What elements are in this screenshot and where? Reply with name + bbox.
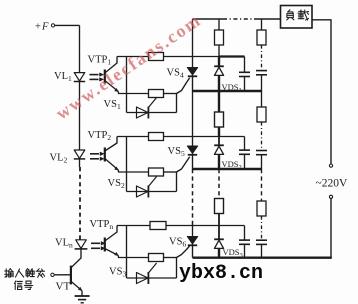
- thyristor VS4: [187, 68, 197, 77]
- wire line B group1 to group2: [192, 91, 194, 146]
- LED VL2: [74, 150, 85, 159]
- wire C3b to group3 bottom bus: [261, 244, 263, 257]
- wire left rail VL1 to VL2: [79, 82, 81, 151]
- wire gate node down to VS1 cathode row: [176, 94, 178, 113]
- group 1 bottom bus: [193, 90, 262, 92]
- node AC terminal lower: [329, 195, 332, 198]
- wire VS2 node to VS5 gate: [177, 157, 190, 172]
- wire line C group3 bus to VDS3: [218, 226, 220, 240]
- node +F supply terminal: [35, 21, 55, 32]
- LED VL1: [74, 73, 85, 82]
- group 1 top bus (left part): [117, 56, 219, 58]
- resistor RC3: [215, 199, 224, 214]
- wire line C dashed group2 to RC3: [218, 169, 220, 199]
- svg-text:VTP2: VTP2: [88, 130, 112, 142]
- resistor RC2: [215, 112, 224, 127]
- wire right rail lower: [330, 198, 332, 257]
- node input trigger terminal: [51, 273, 54, 276]
- svg-text:VT: VT: [56, 281, 71, 293]
- wire VS3 anode row: [127, 277, 177, 279]
- capacitor C2a: [239, 150, 250, 154]
- label input trigger signal 输入触发信号: [5, 269, 45, 290]
- diode VDS3: [214, 239, 224, 248]
- resistor R2b: [149, 168, 164, 176]
- svg-text:VS5: VS5: [168, 146, 185, 158]
- capacitor C1a: [239, 72, 250, 76]
- wire line C group1 to RC2: [218, 91, 220, 112]
- wire C3a top lead: [244, 226, 246, 240]
- LED VLn: [75, 240, 88, 249]
- wire C2a bottom lead: [244, 154, 246, 169]
- node AC terminal upper: [329, 164, 332, 167]
- thyristor VS6: [187, 237, 197, 246]
- wire link collector bus to VS2 anode: [126, 137, 128, 192]
- wire link collector bus to VS3 anode: [126, 226, 128, 279]
- thyristor VS1: [137, 98, 157, 119]
- wire VS3 node to VS6 gate: [177, 246, 190, 258]
- thyristor VS3: [137, 263, 157, 284]
- svg-text:F: F: [41, 21, 49, 32]
- resistor R1a: [149, 53, 164, 61]
- main top bus: [193, 18, 281, 20]
- group 3 bottom bus to right rail: [193, 257, 332, 259]
- wire C3a bottom lead: [244, 244, 246, 257]
- optocoupler light arrows channel 1: [90, 73, 104, 81]
- wire C1a bottom lead: [244, 77, 246, 92]
- wire VDS1 to group1 bottom bus: [218, 75, 220, 91]
- wire gate node down to VS2 cathode row: [176, 172, 178, 192]
- watermark ybx8.cn: [179, 262, 263, 285]
- wire line B from top bus to VS4: [192, 19, 194, 68]
- capacitor C3a: [239, 240, 250, 244]
- wire left rail below VL2 (solid stub): [79, 159, 81, 167]
- phototransistor VTP1: [105, 57, 119, 92]
- phototransistor VTP2: [105, 137, 119, 171]
- wire R2b to gate node: [164, 171, 177, 173]
- capacitor C1b: [256, 71, 267, 75]
- optocoupler light arrows channel 3: [91, 242, 105, 251]
- transistor VT: [71, 266, 82, 291]
- watermark elecfans: [52, 10, 206, 125]
- group 2 top bus: [117, 136, 245, 138]
- wire VS5 cathode to group2 bottom bus: [192, 155, 194, 169]
- svg-text:VLn: VLn: [55, 238, 73, 250]
- diode VDS2: [214, 145, 224, 154]
- wire emitter row channel 1: [118, 92, 148, 94]
- wire left rail dashed continuation VL2 to VLn: [79, 167, 81, 240]
- thyristor VS2: [137, 177, 157, 198]
- wire VLn cathode to VT collector: [72, 249, 81, 267]
- resistor RD1: [257, 30, 266, 45]
- wire link collector bus to VS1 anode: [126, 57, 128, 113]
- wire VS2 anode row: [127, 191, 177, 193]
- resistor RD3: [257, 201, 266, 216]
- wire line B dashed group2 to group3: [192, 169, 194, 226]
- wire line C RC1 to group1 bus: [218, 45, 220, 57]
- svg-text:+: +: [35, 21, 41, 32]
- svg-text:VDS1: VDS1: [222, 82, 242, 94]
- group 2 bottom bus: [193, 168, 262, 170]
- wire emitter row channel 3: [118, 256, 148, 258]
- wire line D dashed group2 to RD3: [261, 169, 263, 201]
- wire line C group2 bus to VDS2: [218, 137, 220, 146]
- wire VS4 cathode to group1 bottom bus: [192, 76, 194, 91]
- thyristor VS5: [187, 146, 197, 155]
- wire line C RC3 to group3 bus: [218, 214, 220, 226]
- svg-text:VTP1: VTP1: [88, 55, 112, 67]
- svg-text:VL1: VL1: [54, 71, 72, 83]
- wire VDS3 to group3 bottom bus: [218, 248, 220, 257]
- group 1 top bus (right part, bold): [219, 55, 245, 57]
- wire C1b to group1 bottom bus: [261, 75, 263, 91]
- svg-text:VTPn: VTPn: [90, 219, 114, 231]
- wire R3b to gate node: [164, 257, 177, 259]
- resistor RD2: [257, 107, 266, 122]
- wire C2b to group2 bottom bus: [261, 155, 263, 169]
- diode VDS1: [214, 66, 224, 75]
- svg-text:VS2: VS2: [108, 178, 125, 190]
- wire C2a top lead: [244, 137, 246, 150]
- resistor R3a: [150, 222, 166, 230]
- phototransistor VTPn: [105, 226, 119, 256]
- wire line D group1 to RD2: [261, 91, 263, 107]
- wire left rail above VL1: [79, 25, 81, 72]
- wire VS1 node to VS4 gate: [177, 78, 190, 94]
- wire +F feed to left rail: [55, 24, 80, 26]
- resistor R1b: [149, 90, 164, 98]
- wire line C group1 bus to VDS1: [218, 57, 220, 67]
- wire line D dash-dot RD1 to C1b: [261, 45, 263, 70]
- wire VS6 cathode to group3 bottom bus: [192, 245, 194, 257]
- svg-text:VL2: VL2: [50, 153, 68, 165]
- wire line D dash RD2 to C2b: [261, 122, 263, 150]
- ground: [75, 291, 90, 303]
- capacitor C3b: [256, 240, 267, 244]
- load box 负载: [281, 6, 313, 29]
- svg-text:VS6: VS6: [169, 237, 186, 249]
- capacitor C2b: [256, 151, 267, 155]
- wire line C top: [218, 19, 220, 30]
- wire R1b to gate node: [164, 93, 177, 95]
- svg-text:VS4: VS4: [167, 68, 184, 80]
- wire line B group3 to VS6: [192, 226, 194, 237]
- group 3 top bus: [117, 225, 245, 227]
- wire emitter row channel 2: [118, 170, 148, 172]
- svg-text:VS3: VS3: [109, 267, 126, 279]
- wire VS1 anode row: [127, 112, 177, 114]
- wire input terminal to VT base: [54, 274, 70, 276]
- resistor R2a: [149, 133, 164, 141]
- wire line C RC2 to group2 bus: [218, 127, 220, 137]
- svg-text:VS1: VS1: [104, 99, 121, 111]
- wire line D top: [261, 19, 263, 30]
- wire C1a top lead: [244, 57, 246, 73]
- wire VDS2 to group2 bottom bus: [218, 154, 220, 169]
- optocoupler light arrows channel 2: [90, 152, 104, 161]
- wire load to right rail: [312, 20, 331, 164]
- resistor R3b: [149, 254, 164, 262]
- resistor RC1: [215, 30, 224, 45]
- wire gate node down to VS3 cathode row: [176, 258, 178, 279]
- svg-text:~220V: ~220V: [316, 178, 348, 190]
- wire line D dash-dot RD3 to C3b: [261, 216, 263, 240]
